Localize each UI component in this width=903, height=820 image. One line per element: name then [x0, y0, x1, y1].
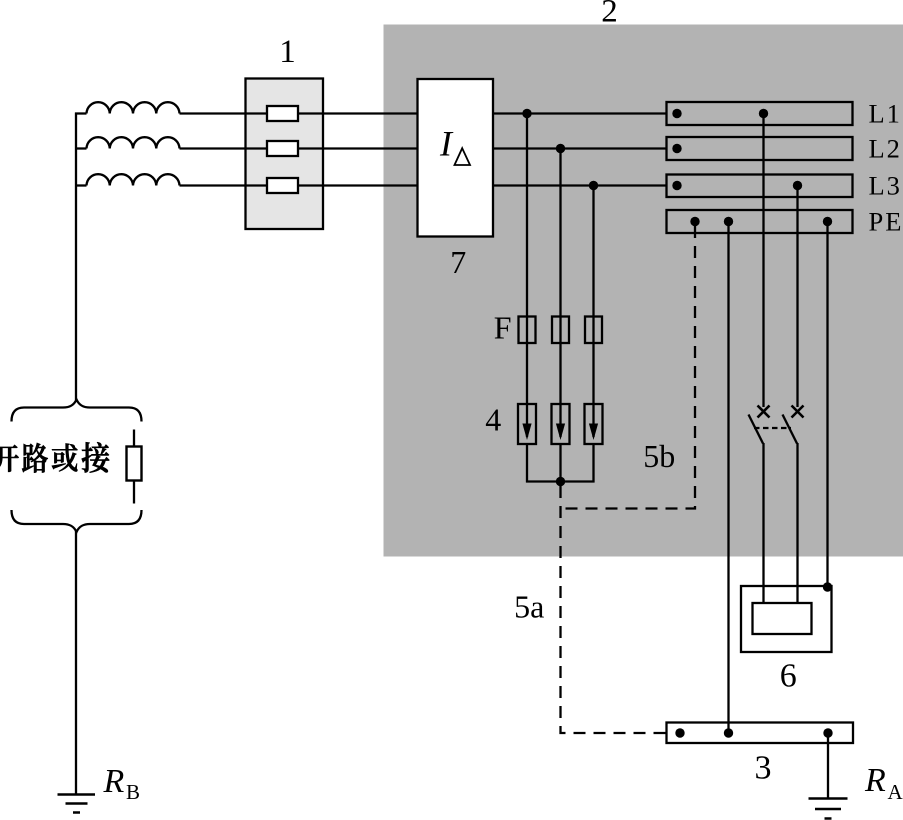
label chinese jie (接) [82, 442, 110, 472]
svg-text:7: 7 [450, 244, 466, 280]
wire switch feeder from L3 tap [796, 186, 798, 408]
dashed wire 5a (arrester common to earth busbar 3) [561, 486, 667, 733]
junction dot busbar L2 left [672, 144, 681, 153]
svg-text:L2: L2 [869, 134, 902, 164]
fuse F3 [585, 317, 602, 344]
busbar PE [667, 210, 853, 233]
resistor lead bottom [133, 481, 135, 504]
gray cabinet area 2 [384, 25, 903, 557]
wire earth lead RA [827, 733, 829, 798]
wire phase L3 stub [75, 184, 87, 186]
junction dot busbar PE tap c [823, 217, 832, 226]
arrester arrow 3 [589, 424, 598, 441]
dashed switch linkage [754, 427, 791, 429]
earth busbar 3 [667, 723, 854, 744]
junction dot busbar PE tap a [690, 217, 699, 226]
switch contact cross mark [792, 406, 804, 418]
junction dot busbar L3 left [672, 181, 681, 190]
svg-text:3: 3 [755, 750, 772, 787]
brace top (open-circuit-or-connected upper) [12, 400, 142, 422]
wire arrester tail 2 [559, 444, 561, 483]
fuse cartridge in box 1, phase L2 [267, 141, 298, 156]
svg-text:R: R [103, 763, 125, 800]
ground symbol RA [809, 797, 848, 800]
busbar L1 [667, 102, 853, 125]
wire arrester tail 3 [592, 444, 594, 483]
svg-text:F: F [494, 310, 512, 346]
fuse box 1 [246, 79, 324, 230]
svg-text:PE: PE [869, 207, 903, 237]
svg-text:1: 1 [279, 34, 296, 70]
junction dot busbar L1 left [672, 109, 681, 118]
label chinese kai (开) [0, 445, 19, 472]
arrester arrow 1 [522, 424, 531, 441]
svg-text:R: R [864, 762, 886, 799]
wire phase L1 stub [75, 112, 87, 114]
junction dot busbar PE tap b [724, 217, 733, 226]
surge arrester 4 unit 3 [585, 404, 603, 444]
svg-text:2: 2 [601, 0, 618, 29]
svg-text:6: 6 [780, 658, 797, 695]
ground symbol RB [58, 793, 96, 796]
junction dot phase L1 to arrester dropper [522, 109, 531, 118]
wire arrester tail 1 [526, 444, 528, 483]
svg-text:5a: 5a [514, 589, 544, 625]
wire PE to appliance enclosure [826, 222, 828, 589]
transformer winding coil L2 [87, 137, 180, 148]
dashed wire 5b (PE to arrester common) [561, 226, 696, 509]
RCD box 7 [418, 79, 494, 237]
wire neutral-point vertical [75, 113, 77, 401]
wire arrester dropper 2 [559, 149, 561, 438]
wire PE to earth busbar 3 [727, 222, 729, 734]
junction dot arrester common [556, 477, 565, 486]
switch blade [749, 415, 764, 444]
wire arrester dropper 1 [526, 114, 528, 438]
resistor (earthing) [127, 447, 142, 481]
label chinese huo (或) [52, 444, 78, 472]
wire earth lead RB [75, 531, 77, 794]
transformer winding coil L3 [87, 174, 180, 185]
wire phase L2 stub [75, 147, 87, 149]
svg-text:5b: 5b [643, 438, 675, 474]
svg-text:L3: L3 [869, 171, 902, 201]
appliance 6 enclosure [741, 586, 832, 652]
junction dot phase L2 to arrester dropper [556, 144, 565, 153]
label I_delta triangle subscript [455, 148, 471, 165]
wire arrester common bar [526, 480, 595, 482]
wire phase L2 run [180, 147, 668, 149]
svg-text:L1: L1 [869, 99, 902, 129]
wire phase L1 run [180, 112, 668, 114]
surge arrester 4 unit 1 [518, 404, 536, 444]
svg-text:B: B [126, 780, 140, 804]
busbar L2 [667, 137, 853, 160]
wire switch lower [762, 443, 764, 604]
label chinese lu (路) [22, 443, 48, 473]
fuse cartridge in box 1, phase L3 [267, 178, 298, 193]
transformer winding coil L1 [87, 102, 180, 113]
junction dot PE on enclosure [823, 582, 832, 591]
junction dot busbar 3 right [823, 728, 832, 737]
wire switch feeder from L1 tap [762, 114, 764, 408]
wire phase L3 run [180, 184, 668, 186]
svg-text:I: I [439, 123, 454, 163]
busbar L3 [667, 175, 853, 198]
svg-text:A: A [888, 780, 903, 804]
fuse F1 [519, 317, 536, 344]
svg-text:4: 4 [485, 402, 501, 438]
fuse F2 [552, 317, 569, 344]
junction dot phase L3 to arrester dropper [589, 181, 598, 190]
wire switch lower [796, 443, 798, 604]
junction dot busbar 3 left [675, 728, 684, 737]
brace bottom (open-circuit-or-connected lower) [12, 510, 142, 532]
junction dot busbar 3 middle [724, 728, 733, 737]
resistor lead top [133, 430, 135, 448]
appliance 6 load element [753, 603, 812, 634]
surge arrester 4 unit 2 [552, 404, 570, 444]
fuse cartridge in box 1, phase L1 [267, 106, 298, 121]
arrester arrow 2 [556, 424, 565, 441]
junction dot busbar L1 tap [759, 109, 768, 118]
junction dot busbar L3 tap [793, 181, 802, 190]
wire arrester dropper 3 [592, 186, 594, 438]
switch contact cross mark [758, 406, 770, 418]
switch blade [783, 415, 798, 444]
